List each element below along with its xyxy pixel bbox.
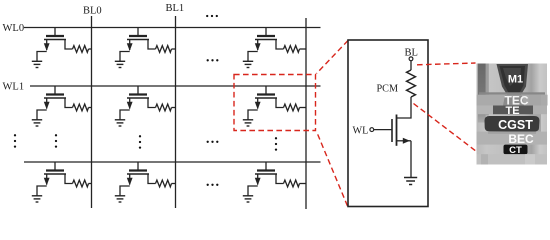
svg-text:CT: CT <box>509 145 522 156</box>
cell r0c1: wire to bit line <box>172 48 176 50</box>
cell r1c1: PCM resistor <box>156 104 172 111</box>
ellipsis mid-rows between col1 and col2 <box>207 141 219 143</box>
cell r2c2: PCM resistor <box>284 180 300 187</box>
cell r0c1: drain wire <box>148 40 156 50</box>
cell r1c2: wire to bit line <box>300 107 307 109</box>
cell r2c2: access transistor (gate stub, gate bar, channel, source arrow) <box>255 162 277 186</box>
photo: CGST dark blob <box>485 116 540 132</box>
cell r1c1: source wire to ground <box>120 110 130 120</box>
cell r1c1: ground symbol <box>115 120 125 126</box>
photo: CT dark plug <box>504 145 528 155</box>
BL terminal circle <box>409 57 413 61</box>
vertical ellipsis column 1 <box>139 135 141 149</box>
cell r0c1: access transistor (gate stub, gate bar, channel, source arrow) <box>127 28 149 52</box>
cell r2c0: PCM resistor <box>73 180 89 187</box>
svg-text:WL0: WL0 <box>3 23 25 34</box>
red dashed highlight rectangle around selected cell <box>234 75 316 131</box>
source wire with arrow <box>397 140 412 142</box>
cell r2c0: ground symbol <box>32 196 42 202</box>
red dashed connector: rect top-right to box top-left <box>317 41 349 74</box>
bit line BLn (rightmost) <box>305 18 307 209</box>
transistor (box): gate bar and channel bar <box>392 115 397 146</box>
gate wire <box>374 129 392 131</box>
cell r0c2: access transistor (gate stub, gate bar, channel, source arrow) <box>255 28 277 52</box>
cell r0c2: PCM resistor <box>284 46 300 53</box>
cell r1c2: access transistor (gate stub, gate bar, channel, source arrow) <box>255 86 277 110</box>
svg-text:WL1: WL1 <box>3 82 25 93</box>
bit line BL0 <box>91 16 93 208</box>
red dashed connector: rect bottom-right to box bottom-left <box>317 132 348 207</box>
svg-text:BL0: BL0 <box>83 6 102 17</box>
WL terminal circle <box>370 128 374 132</box>
cell r2c0: wire to bit line <box>89 183 92 185</box>
cell r1c2: drain wire <box>276 98 284 108</box>
photo: bottom strip <box>477 154 548 164</box>
cell r2c1: ground symbol <box>115 196 125 202</box>
cell r1c0: wire to bit line <box>89 107 92 109</box>
cell r2c1: wire to bit line <box>172 183 176 185</box>
cell r2c1: PCM resistor <box>156 180 172 187</box>
vertical ellipsis column 0 <box>55 134 57 148</box>
word line WL0 <box>24 27 321 29</box>
cell r0c2: drain wire <box>276 40 284 50</box>
cell r1c1: wire to bit line <box>172 107 176 109</box>
ellipsis bottom row between col1 and col2 <box>207 184 219 186</box>
red dashed connector: resistor top to photo top-left <box>417 63 476 65</box>
photo: left dark stripe <box>478 64 486 123</box>
ground symbol (box) <box>404 178 417 185</box>
cell r1c2: PCM resistor <box>284 104 300 111</box>
cell r0c2: source wire to ground <box>248 52 258 62</box>
cell r2c2: drain wire <box>276 174 284 184</box>
PCM resistor (box) <box>407 70 416 97</box>
cell r1c1: drain wire <box>148 98 156 108</box>
cell r2c2: ground symbol <box>243 196 253 202</box>
cell r2c0: source wire to ground <box>37 186 47 196</box>
svg-text:TE: TE <box>505 105 519 117</box>
cell r1c2: ground symbol <box>243 120 253 126</box>
cell r0c0: ground symbol <box>32 61 42 67</box>
cell r2c1: access transistor (gate stub, gate bar, channel, source arrow) <box>127 162 149 186</box>
cell r2c2: source wire to ground <box>248 186 258 196</box>
photo: TEC contact under pillar <box>503 96 524 106</box>
cell r1c0: access transistor (gate stub, gate bar, channel, source arrow) <box>44 86 66 110</box>
bit line BL1 <box>175 16 177 208</box>
svg-text:BL1: BL1 <box>166 3 185 14</box>
wire BL terminal to resistor <box>410 61 412 70</box>
cell r2c1: source wire to ground <box>120 186 130 196</box>
svg-text:CGST: CGST <box>498 118 533 132</box>
cell r1c0: source wire to ground <box>37 110 47 120</box>
ellipsis row0 between col1 and col2 <box>207 59 219 61</box>
cell r0c0: access transistor (gate stub, gate bar, channel, source arrow) <box>44 28 66 52</box>
svg-text:PCM: PCM <box>377 84 399 95</box>
cell r0c0: drain wire <box>65 40 73 50</box>
svg-text:M1: M1 <box>508 74 523 86</box>
photo: right mid-gray band <box>529 95 541 132</box>
cell r0c2: ground symbol <box>243 61 253 67</box>
photo: interface line under M1 <box>479 92 545 94</box>
cell r2c0: access transistor (gate stub, gate bar, channel, source arrow) <box>44 162 66 186</box>
cell r0c1: source wire to ground <box>120 52 130 62</box>
cell r0c0: source wire to ground <box>37 52 47 62</box>
word line WL1 <box>30 85 321 87</box>
vertical ellipsis left margin <box>14 134 16 148</box>
photo: BEC band <box>477 132 548 145</box>
photo: M1 metal pillar <box>497 64 529 96</box>
vertical ellipsis column 2 <box>275 137 277 151</box>
wire resistor to drain <box>397 97 412 118</box>
cell r1c0: drain wire <box>65 98 73 108</box>
cell r0c0: wire to bit line <box>89 48 92 50</box>
cell r0c2: wire to bit line <box>300 48 307 50</box>
cell r1c1: access transistor (gate stub, gate bar, channel, source arrow) <box>127 86 149 110</box>
photo: TE dark band <box>493 106 533 115</box>
cell r2c2: wire to bit line <box>300 183 307 185</box>
cell r1c2: source wire to ground <box>248 110 258 120</box>
svg-text:WL: WL <box>353 126 369 137</box>
cell r2c0: drain wire <box>65 174 73 184</box>
source wire down to ground <box>410 141 412 177</box>
cell r2c1: drain wire <box>148 174 156 184</box>
cell r0c1: ground symbol <box>115 61 125 67</box>
cell r1c0: PCM resistor <box>73 104 89 111</box>
word line WLn (bottom row) <box>24 161 321 163</box>
ellipsis between BL1 and BLn labels <box>206 15 218 17</box>
red dashed connector: resistor bottom to photo bottom-left <box>414 104 477 152</box>
cell r0c0: PCM resistor <box>73 46 89 53</box>
cell r0c1: PCM resistor <box>156 46 172 53</box>
single cell schematic box <box>348 40 428 207</box>
cell r1c0: ground symbol <box>32 120 42 126</box>
